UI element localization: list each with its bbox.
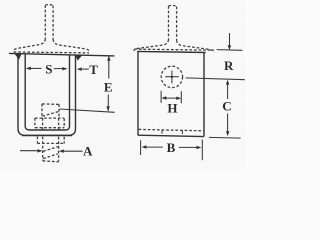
left view: cup bottom thick line <box>22 135 72 137</box>
right view: dashed T-bolt stem <box>169 5 177 40</box>
svg-text:E: E <box>104 80 113 95</box>
left view: dashed T-bolt stem <box>45 4 53 39</box>
left view: dashed bolt square neck inside cup <box>42 104 59 118</box>
left view: cup outer wall <box>18 54 76 135</box>
svg-text:C: C <box>222 99 231 114</box>
dimension C line <box>226 80 230 136</box>
left view: weld projection left <box>14 54 21 60</box>
dimension B extension lines <box>140 140 142 155</box>
dimension E line <box>106 56 110 111</box>
left view: dashed threaded stud below cup <box>43 137 59 162</box>
svg-text:B: B <box>167 140 176 155</box>
right view: tick marks below dashed line <box>161 130 163 134</box>
dimension R top extension line <box>217 49 243 52</box>
dimension R arrow <box>228 33 232 50</box>
right view: center leader line <box>186 78 245 80</box>
right view: body left wall <box>137 52 139 136</box>
left view: cup inner wall <box>25 54 69 130</box>
dimension H extension lines <box>160 91 162 103</box>
left view: weld projection right <box>75 55 82 61</box>
dimension H line <box>161 96 181 100</box>
dimension S line <box>26 67 67 71</box>
left view: dashed T-bolt flange <box>13 39 89 53</box>
leader line from bolt to E dimension <box>60 109 115 112</box>
right view: dashed T-bolt flange <box>134 39 214 52</box>
left view: dashed hex flange below cup <box>37 137 64 144</box>
right view: body top thick line <box>137 51 205 52</box>
right view: body bottom thick line <box>138 135 204 136</box>
svg-text:H: H <box>167 101 177 116</box>
left view: dashed washer inside cup <box>35 118 64 130</box>
svg-text:T: T <box>89 62 98 77</box>
right view: hole crosshair <box>171 71 173 84</box>
dimension C bottom extension line <box>209 136 241 139</box>
dimension B line <box>142 145 202 149</box>
svg-text:A: A <box>83 144 93 159</box>
left view: retainer top flange line <box>9 53 115 56</box>
right view: dashed line near bottom <box>139 129 204 130</box>
dimension T arrow <box>77 67 89 71</box>
svg-text:S: S <box>45 61 52 76</box>
dimension A line <box>20 149 83 153</box>
right view: body right wall <box>203 52 205 136</box>
svg-text:R: R <box>224 58 234 73</box>
right view: dashed hole circle <box>161 66 182 87</box>
